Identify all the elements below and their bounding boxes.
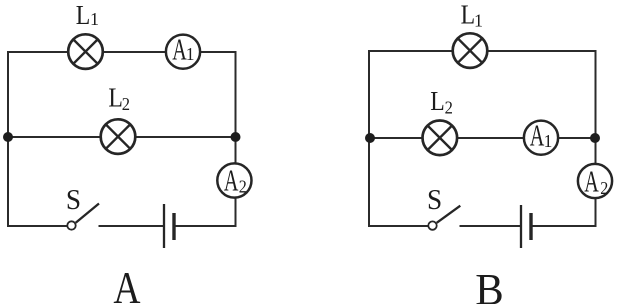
svg-text:S: S	[427, 184, 442, 216]
ammeter A1 (circuit B)	[524, 118, 558, 154]
lamp L1	[68, 34, 103, 69]
svg-text:2: 2	[122, 94, 130, 114]
wire: A bottom left segment	[8, 225, 67, 227]
svg-text:A: A	[224, 163, 239, 197]
switch S (circuit B)	[428, 206, 460, 230]
svg-text:2: 2	[600, 178, 608, 198]
svg-text:1: 1	[90, 9, 99, 29]
node: B right junction	[590, 133, 600, 143]
ammeter A2 (circuit B)	[578, 164, 612, 199]
wire: B right side	[595, 50, 597, 227]
wire: B left side	[368, 50, 370, 227]
ammeter A2	[217, 163, 251, 197]
switch S (circuit A)	[67, 204, 99, 230]
wire: A left side	[7, 51, 9, 227]
svg-text:2: 2	[445, 98, 453, 118]
wire: A top side	[8, 51, 236, 53]
svg-text:L: L	[461, 0, 476, 30]
wire: A right side	[235, 51, 237, 227]
svg-text:1: 1	[474, 11, 483, 31]
wire: B bottom middle segment	[460, 225, 521, 227]
svg-text:A: A	[530, 118, 545, 152]
svg-text:A: A	[172, 32, 187, 66]
wire: B bottom right segment	[532, 225, 597, 227]
wire: B bottom left segment	[369, 225, 428, 227]
lamp L2	[101, 119, 136, 154]
svg-text:1: 1	[186, 44, 195, 64]
node: B left junction	[365, 133, 375, 143]
battery (circuit B)	[521, 205, 531, 248]
svg-text:A: A	[584, 164, 599, 198]
node: A right junction	[231, 132, 241, 142]
lamp L2 (circuit B)	[423, 121, 458, 156]
svg-text:L: L	[108, 82, 123, 113]
svg-text:L: L	[76, 0, 91, 31]
svg-text:B: B	[475, 265, 503, 304]
wire: B top side	[369, 50, 596, 52]
battery (circuit A)	[164, 204, 174, 248]
wire: A bottom middle segment	[99, 225, 164, 227]
wire: A bottom right segment	[175, 225, 237, 227]
svg-text:1: 1	[544, 131, 553, 151]
svg-text:L: L	[430, 85, 445, 116]
svg-text:A: A	[113, 263, 140, 304]
node: A left junction	[3, 132, 13, 142]
lamp L1 (circuit B)	[453, 33, 488, 68]
wire: B middle branch	[369, 137, 596, 139]
wire: A middle branch	[8, 136, 236, 138]
ammeter A1	[166, 32, 200, 68]
svg-text:S: S	[66, 184, 81, 216]
svg-text:2: 2	[239, 177, 247, 197]
